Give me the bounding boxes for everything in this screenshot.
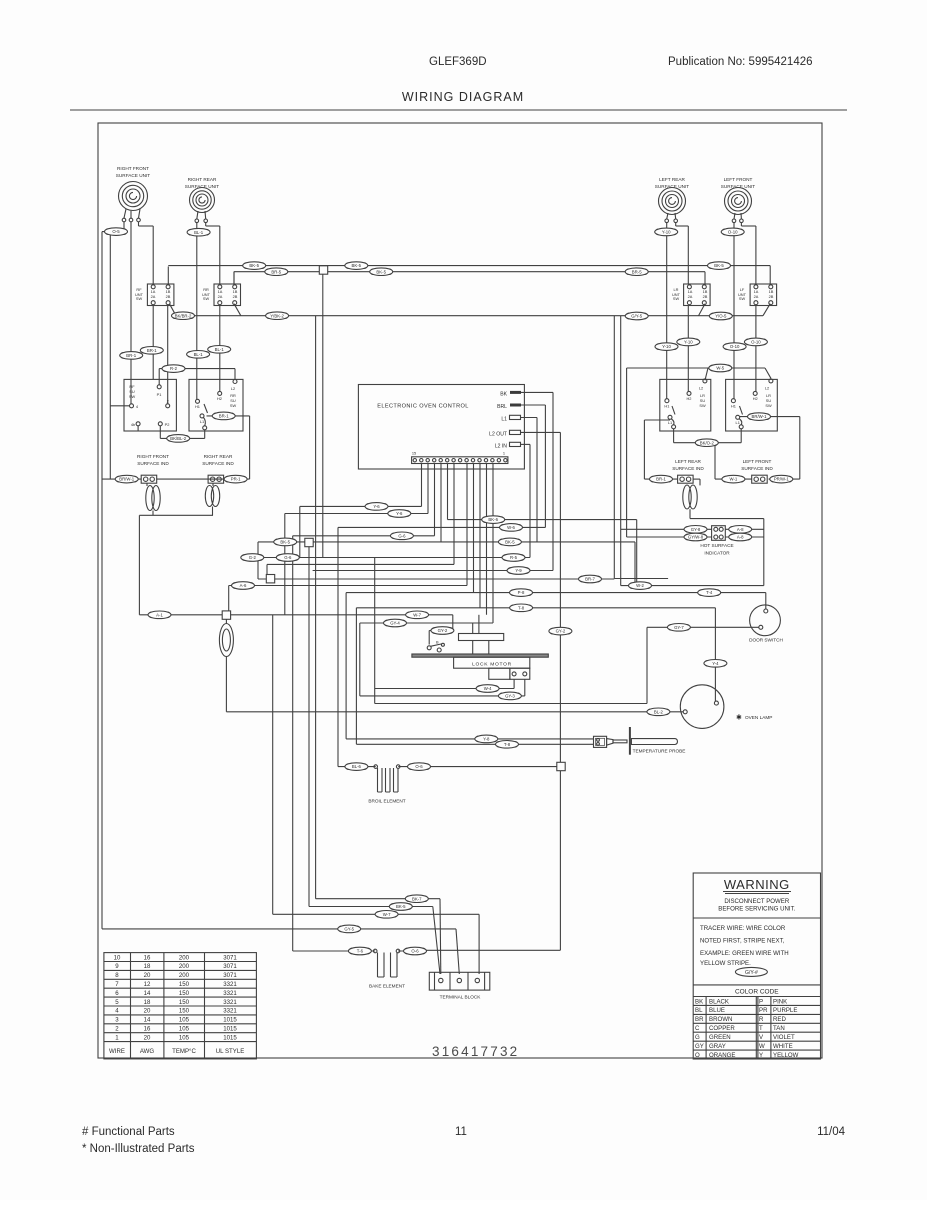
svg-text:TEMP°C: TEMP°C (172, 1048, 196, 1055)
connector Y-8 (475, 735, 498, 743)
switch RR SU SW (189, 379, 243, 431)
connector G/Y-5 (625, 312, 648, 320)
svg-text:20: 20 (144, 1008, 151, 1015)
op-amp: electronic oven control box (358, 385, 524, 470)
connector BR/W-1 (115, 475, 138, 483)
svg-text:4: 4 (115, 1008, 119, 1015)
connector W-4 (476, 685, 499, 693)
svg-text:BK-5: BK-5 (280, 540, 290, 545)
svg-text:O-10: O-10 (728, 230, 738, 235)
svg-text:TRACER WIRE: WIRE COLOR: TRACER WIRE: WIRE COLOR (700, 925, 786, 932)
svg-text:GY-4: GY-4 (390, 621, 400, 626)
connector Y-6 (365, 503, 388, 511)
right rear indicator connector (208, 475, 224, 483)
lamp right front ind (146, 486, 160, 511)
connector BK-5 (498, 538, 521, 546)
svg-text:SW: SW (203, 296, 210, 301)
svg-text:105: 105 (179, 1017, 190, 1024)
connector W-6 (500, 524, 523, 532)
left front indicator connector (752, 475, 768, 483)
svg-text:18: 18 (144, 963, 151, 970)
connector BL-2 (647, 708, 670, 716)
svg-text:V: V (759, 1034, 764, 1041)
svg-text:P-8: P-8 (518, 590, 525, 595)
svg-text:BL-6: BL-6 (352, 764, 362, 769)
svg-text:G-6: G-6 (398, 533, 406, 538)
right front indicator connector (141, 475, 157, 483)
svg-text:UL STYLE: UL STYLE (216, 1048, 245, 1055)
svg-text:150: 150 (179, 990, 190, 997)
svg-text:2: 2 (167, 399, 169, 404)
svg-text:PURPLE: PURPLE (773, 1007, 797, 1014)
lamp left rear ind (683, 485, 697, 509)
connector P-8 (510, 589, 533, 597)
svg-text:BEFORE SERVICING UNIT.: BEFORE SERVICING UNIT. (718, 906, 795, 913)
connector BL-1 (187, 351, 210, 359)
connector BK/BL-2 (167, 435, 190, 443)
svg-text:BR-1: BR-1 (126, 353, 136, 358)
svg-text:A-8: A-8 (737, 535, 744, 540)
svg-text:BK: BK (500, 391, 507, 397)
connector GY-7 (667, 624, 690, 632)
svg-text:Y-9: Y-9 (515, 568, 522, 573)
svg-text:3071: 3071 (223, 963, 237, 970)
lock motor (412, 634, 548, 680)
connector GY-3 (498, 692, 521, 700)
svg-text:SURFACE UNIT: SURFACE UNIT (185, 184, 220, 189)
svg-text:BK-7: BK-7 (412, 896, 422, 901)
svg-text:BL-1: BL-1 (194, 230, 204, 235)
svg-text:HOT SURFACE: HOT SURFACE (700, 543, 733, 548)
svg-text:W: W (759, 1043, 765, 1050)
svg-text:BLACK: BLACK (709, 998, 729, 1005)
svg-text:TAN: TAN (773, 1025, 785, 1032)
coil terminals (122, 218, 743, 222)
svg-text:GRAY: GRAY (709, 1043, 726, 1050)
left rear surface ind label (672, 459, 704, 471)
svg-text:GY/W-8: GY/W-8 (688, 535, 704, 540)
connector PR-1 (224, 475, 247, 483)
svg-text:SW: SW (739, 296, 746, 301)
svg-text:BR: BR (695, 1016, 704, 1023)
svg-text:Y/O-5: Y/O-5 (715, 314, 727, 319)
svg-text:T-8: T-8 (518, 605, 525, 610)
svg-text:1: 1 (503, 451, 505, 456)
connector BL-1 (208, 346, 231, 354)
svg-text:BR-7: BR-7 (585, 577, 595, 582)
right rear surface ind label (202, 454, 234, 466)
svg-text:WIRING DIAGRAM: WIRING DIAGRAM (402, 90, 524, 104)
svg-text:1015: 1015 (223, 1017, 237, 1024)
connector BK-5 (389, 903, 412, 911)
connector BR-5 (625, 268, 648, 276)
switch LF SU SW (726, 379, 778, 431)
svg-text:Y: Y (759, 1052, 763, 1059)
svg-text:COPPER: COPPER (709, 1025, 735, 1032)
svg-text:G/Y-#: G/Y-# (745, 970, 758, 976)
svg-text:LOCK MOTOR: LOCK MOTOR (472, 661, 512, 667)
svg-text:R-2: R-2 (170, 366, 178, 371)
svg-text:LEFT FRONT: LEFT FRONT (743, 459, 772, 464)
svg-text:200: 200 (179, 963, 190, 970)
svg-text:YELLOW STRIPE.: YELLOW STRIPE. (700, 960, 751, 967)
svg-text:GREEN: GREEN (709, 1034, 731, 1041)
svg-text:2A: 2A (754, 294, 759, 299)
svg-text:GY-2: GY-2 (556, 629, 566, 634)
svg-text:SURFACE IND: SURFACE IND (672, 466, 704, 471)
svg-text:11/04: 11/04 (817, 1126, 846, 1138)
svg-text:BR-1: BR-1 (219, 414, 229, 419)
connector GY-2 (431, 627, 454, 635)
svg-text:SW: SW (129, 394, 136, 399)
svg-text:BROWN: BROWN (709, 1016, 732, 1023)
temperature probe (594, 727, 686, 755)
svg-text:R: R (759, 1016, 764, 1023)
svg-text:BK/BR-2: BK/BR-2 (175, 313, 192, 318)
svg-text:SURFACE IND: SURFACE IND (137, 461, 169, 466)
connector A-6 (232, 582, 255, 590)
connector T-6 (348, 947, 371, 955)
svg-text:Y/BK-2: Y/BK-2 (270, 313, 284, 318)
svg-text:W-6: W-6 (507, 525, 515, 530)
switch LF UNIT SW (738, 284, 777, 306)
connector A-8 (729, 533, 752, 541)
connector GY-8 (684, 526, 707, 534)
svg-text:BRL: BRL (497, 404, 507, 410)
svg-text:L1: L1 (501, 416, 507, 422)
connector R-5 (502, 554, 525, 562)
wire gauge table (104, 953, 257, 1059)
svg-text:W-7: W-7 (383, 912, 391, 917)
svg-text:LEFT FRONT: LEFT FRONT (724, 177, 753, 182)
svg-text:105: 105 (179, 1026, 190, 1033)
svg-text:200: 200 (179, 972, 190, 979)
svg-text:3071: 3071 (223, 954, 237, 961)
hot surface indicator (700, 526, 733, 556)
svg-text:G: G (695, 1034, 700, 1041)
svg-text:BROIL ELEMENT: BROIL ELEMENT (368, 799, 405, 804)
svg-text:2B: 2B (166, 294, 171, 299)
svg-text:BLUE: BLUE (709, 1007, 725, 1014)
svg-text:GY-7: GY-7 (674, 625, 684, 630)
connector G-2 (241, 554, 264, 562)
connector O-10 (723, 343, 746, 351)
svg-text:2A: 2A (688, 294, 693, 299)
svg-text:BK-5: BK-5 (376, 269, 386, 274)
connector A-8 (729, 526, 752, 534)
connector Y-9 (507, 567, 530, 575)
svg-text:SURFACE UNIT: SURFACE UNIT (655, 184, 690, 189)
svg-text:SURFACE IND: SURFACE IND (202, 461, 234, 466)
svg-text:14: 14 (144, 1017, 151, 1024)
svg-text:2B: 2B (703, 294, 708, 299)
connector W-7 (406, 611, 429, 619)
connector BR-5 (265, 268, 288, 276)
svg-text:O-5: O-5 (112, 229, 120, 234)
svg-text:H1: H1 (731, 404, 736, 409)
lamp right rear ind (205, 486, 219, 507)
door switch (749, 605, 783, 643)
svg-text:C: C (695, 1025, 700, 1032)
svg-text:L2: L2 (231, 386, 235, 391)
connector BR-7 (579, 575, 602, 583)
wire segments (102, 222, 800, 974)
svg-text:G/Y-5: G/Y-5 (631, 314, 642, 319)
svg-text:2A: 2A (218, 294, 223, 299)
connector O-5 (105, 228, 128, 236)
svg-text:H1: H1 (195, 404, 200, 409)
svg-text:Y-6: Y-6 (373, 504, 380, 509)
svg-text:RIGHT FRONT: RIGHT FRONT (137, 454, 169, 459)
svg-text:2B: 2B (769, 294, 774, 299)
svg-text:SW: SW (230, 403, 237, 408)
connector BK-6 (482, 516, 505, 524)
connector BK/BR-2 (172, 312, 195, 320)
svg-text:1015: 1015 (223, 1034, 237, 1041)
svg-text:16: 16 (144, 1026, 151, 1033)
oven lamp (680, 685, 772, 729)
connector BR-1 (120, 352, 143, 360)
connector PR/W-1 (770, 475, 793, 483)
svg-text:Y-8: Y-8 (483, 737, 490, 742)
connector Y-10 (677, 338, 700, 346)
svg-text:P: P (759, 998, 763, 1005)
svg-text:Y-10: Y-10 (662, 344, 671, 349)
svg-text:H2: H2 (753, 396, 758, 401)
switch RF SU SW (124, 379, 176, 431)
svg-text:GY-2: GY-2 (438, 628, 448, 633)
svg-text:BR/W-1: BR/W-1 (752, 414, 768, 419)
svg-text:L1: L1 (668, 420, 672, 425)
connector BR/W-1 (748, 413, 771, 421)
svg-text:RED: RED (773, 1016, 786, 1023)
svg-text:✱: ✱ (736, 714, 742, 722)
svg-text:H1: H1 (664, 404, 669, 409)
svg-text:SW: SW (699, 403, 706, 408)
svg-text:WARNING: WARNING (724, 877, 790, 892)
svg-text:BR-5: BR-5 (632, 269, 642, 274)
svg-text:BK/O-2: BK/O-2 (700, 440, 715, 445)
svg-text:ELECTRONIC OVEN CONTROL: ELECTRONIC OVEN CONTROL (377, 404, 469, 410)
svg-text:200: 200 (179, 954, 190, 961)
svg-text:WIRE: WIRE (109, 1048, 125, 1055)
switch RR UNIT SW (202, 284, 241, 306)
svg-text:Y-10: Y-10 (684, 340, 693, 345)
connector A-1 (148, 611, 171, 619)
svg-text:LEFT REAR: LEFT REAR (675, 459, 701, 464)
svg-text:12: 12 (144, 981, 151, 988)
svg-text:8: 8 (115, 972, 119, 979)
svg-text:2B: 2B (233, 294, 238, 299)
svg-text:T-6: T-6 (357, 949, 364, 954)
svg-text:PR-1: PR-1 (231, 477, 241, 482)
svg-text:RIGHT FRONT: RIGHT FRONT (117, 166, 149, 171)
connector O-10 (744, 338, 767, 346)
connector W-1 (722, 475, 745, 483)
svg-text:105: 105 (179, 1034, 190, 1041)
connector W-2 (629, 582, 652, 590)
connector BR-1 (650, 475, 673, 483)
connector BR-1 (140, 347, 163, 355)
svg-text:VIOLET: VIOLET (773, 1034, 795, 1041)
svg-text:GY: GY (695, 1043, 704, 1050)
svg-text:L2 IN: L2 IN (495, 443, 507, 449)
switch RF UNIT SW (135, 284, 174, 306)
svg-text:T-8: T-8 (504, 742, 511, 747)
svg-text:Y-10: Y-10 (662, 230, 671, 235)
svg-text:BK: BK (695, 998, 703, 1005)
svg-text:BR/W-1: BR/W-1 (119, 477, 135, 482)
broil element (368, 765, 405, 804)
junction node (319, 266, 327, 274)
svg-text:L2: L2 (765, 386, 769, 391)
svg-text:COLOR CODE: COLOR CODE (735, 989, 779, 996)
svg-text:G-6: G-6 (284, 555, 292, 560)
svg-text:14: 14 (144, 990, 151, 997)
svg-text:16: 16 (144, 954, 151, 961)
svg-text:BAKE ELEMENT: BAKE ELEMENT (369, 984, 405, 989)
svg-text:AWG: AWG (140, 1048, 155, 1055)
svg-text:5: 5 (115, 999, 119, 1006)
svg-text:10: 10 (114, 954, 121, 961)
svg-text:BR-1: BR-1 (656, 477, 666, 482)
connector BL-6 (345, 763, 368, 771)
surface unit coil: RIGHT REAR SURFACE UNIT (185, 177, 220, 213)
svg-text:1: 1 (115, 1034, 119, 1041)
bake element (369, 949, 405, 988)
connector Y/O-5 (709, 312, 732, 320)
svg-text:GLEF369D: GLEF369D (429, 56, 487, 68)
svg-text:18: 18 (144, 999, 151, 1006)
connector O-6 (404, 947, 427, 955)
surface unit coil: RIGHT FRONT SURFACE UNIT (116, 166, 151, 211)
svg-text:9: 9 (115, 963, 119, 970)
surface unit coil: LEFT FRONT SURFACE UNIT (721, 177, 756, 215)
connector BK-5 (274, 538, 297, 546)
svg-text:2A: 2A (151, 294, 156, 299)
svg-text:DOOR SWITCH: DOOR SWITCH (749, 638, 783, 643)
connector Y-6 (388, 510, 411, 518)
svg-text:BR-1: BR-1 (147, 348, 157, 353)
svg-text:B: B (436, 640, 439, 645)
svg-text:SURFACE UNIT: SURFACE UNIT (721, 184, 756, 189)
svg-text:RIGHT REAR: RIGHT REAR (188, 177, 217, 182)
svg-text:O: O (695, 1052, 700, 1059)
connector BK-7 (405, 895, 428, 903)
connector R-2 (162, 365, 185, 373)
svg-text:RIGHT REAR: RIGHT REAR (204, 454, 233, 459)
left front surface ind label (741, 459, 773, 471)
junction node (266, 575, 274, 583)
svg-text:4b: 4b (131, 422, 135, 427)
connector Y/BK-2 (266, 312, 289, 320)
svg-text:150: 150 (179, 999, 190, 1006)
surface unit coil: LEFT REAR SURFACE UNIT (655, 177, 690, 215)
connector G-6 (276, 554, 299, 562)
connector W-5 (709, 364, 732, 372)
right front surface ind label (137, 454, 169, 466)
svg-text:TEMPERATURE PROBE: TEMPERATURE PROBE (633, 749, 686, 754)
svg-text:H2: H2 (687, 396, 692, 401)
svg-text:6: 6 (115, 990, 119, 997)
left rear indicator connector (678, 475, 694, 483)
svg-text:A-8: A-8 (737, 527, 744, 532)
svg-text:W-2: W-2 (636, 583, 644, 588)
svg-text:150: 150 (179, 1008, 190, 1015)
coil stems (124, 209, 741, 219)
connector GY-4 (384, 619, 407, 627)
svg-text:ORANGE: ORANGE (709, 1052, 735, 1059)
svg-text:L2: L2 (699, 386, 703, 391)
svg-text:SW: SW (673, 296, 680, 301)
svg-text:3321: 3321 (223, 981, 237, 988)
switch LR SU SW (660, 379, 711, 431)
connector W-7 (375, 911, 398, 919)
svg-text:SURFACE UNIT: SURFACE UNIT (116, 173, 151, 178)
svg-text:P1: P1 (157, 392, 162, 397)
svg-text:15: 15 (412, 451, 416, 456)
svg-text:3071: 3071 (223, 972, 237, 979)
svg-text:3321: 3321 (223, 999, 237, 1006)
svg-text:Publication No: 5995421426: Publication No: 5995421426 (668, 56, 813, 68)
svg-text:O-10: O-10 (730, 344, 740, 349)
svg-text:W-1: W-1 (729, 477, 737, 482)
svg-text:1015: 1015 (223, 1026, 237, 1033)
svg-text:SW: SW (136, 296, 143, 301)
svg-text:W-4: W-4 (484, 686, 492, 691)
svg-text:WHITE: WHITE (773, 1043, 793, 1050)
warning box (693, 873, 820, 1059)
connector G-6 (390, 532, 413, 540)
connector Y-10 (655, 228, 678, 236)
svg-text:L1: L1 (736, 420, 740, 425)
svg-text:P2: P2 (165, 422, 170, 427)
connector Y-10 (655, 343, 678, 351)
diagram border (98, 123, 822, 1058)
connector BK-5 (370, 268, 393, 276)
junction node (305, 538, 313, 546)
svg-text:11: 11 (455, 1126, 467, 1138)
svg-text:GY-8: GY-8 (691, 527, 701, 532)
connector BK-5 (708, 262, 731, 270)
svg-text:T-4: T-4 (706, 590, 713, 595)
svg-text:SW: SW (765, 403, 772, 408)
connector O-10 (721, 228, 744, 236)
svg-text:W-7: W-7 (413, 612, 421, 617)
svg-text:T: T (759, 1025, 763, 1032)
svg-text:BK-6: BK-6 (488, 517, 498, 522)
svg-text:BL-1: BL-1 (215, 347, 225, 352)
svg-text:3321: 3321 (223, 990, 237, 997)
svg-text:3: 3 (115, 1017, 119, 1024)
svg-text:Y-6: Y-6 (396, 511, 403, 516)
svg-text:DISCONNECT POWER: DISCONNECT POWER (724, 898, 789, 905)
connector BK-5 (243, 262, 266, 270)
connector BK/O-2 (695, 439, 718, 447)
svg-text:L2 OUT: L2 OUT (489, 431, 507, 437)
connector GY/W-8 (684, 533, 707, 541)
svg-text:# Functional Parts: # Functional Parts (82, 1126, 175, 1138)
terminal block (429, 972, 490, 999)
svg-text:H2: H2 (217, 396, 222, 401)
svg-text:316417732: 316417732 (432, 1044, 519, 1059)
svg-text:G-2: G-2 (249, 555, 257, 560)
svg-text:20: 20 (144, 972, 151, 979)
svg-text:YELLOW: YELLOW (773, 1052, 799, 1059)
svg-text:TERMINAL BLOCK: TERMINAL BLOCK (440, 995, 482, 1000)
svg-text:R-5: R-5 (510, 555, 518, 560)
svg-text:O-6: O-6 (415, 764, 423, 769)
